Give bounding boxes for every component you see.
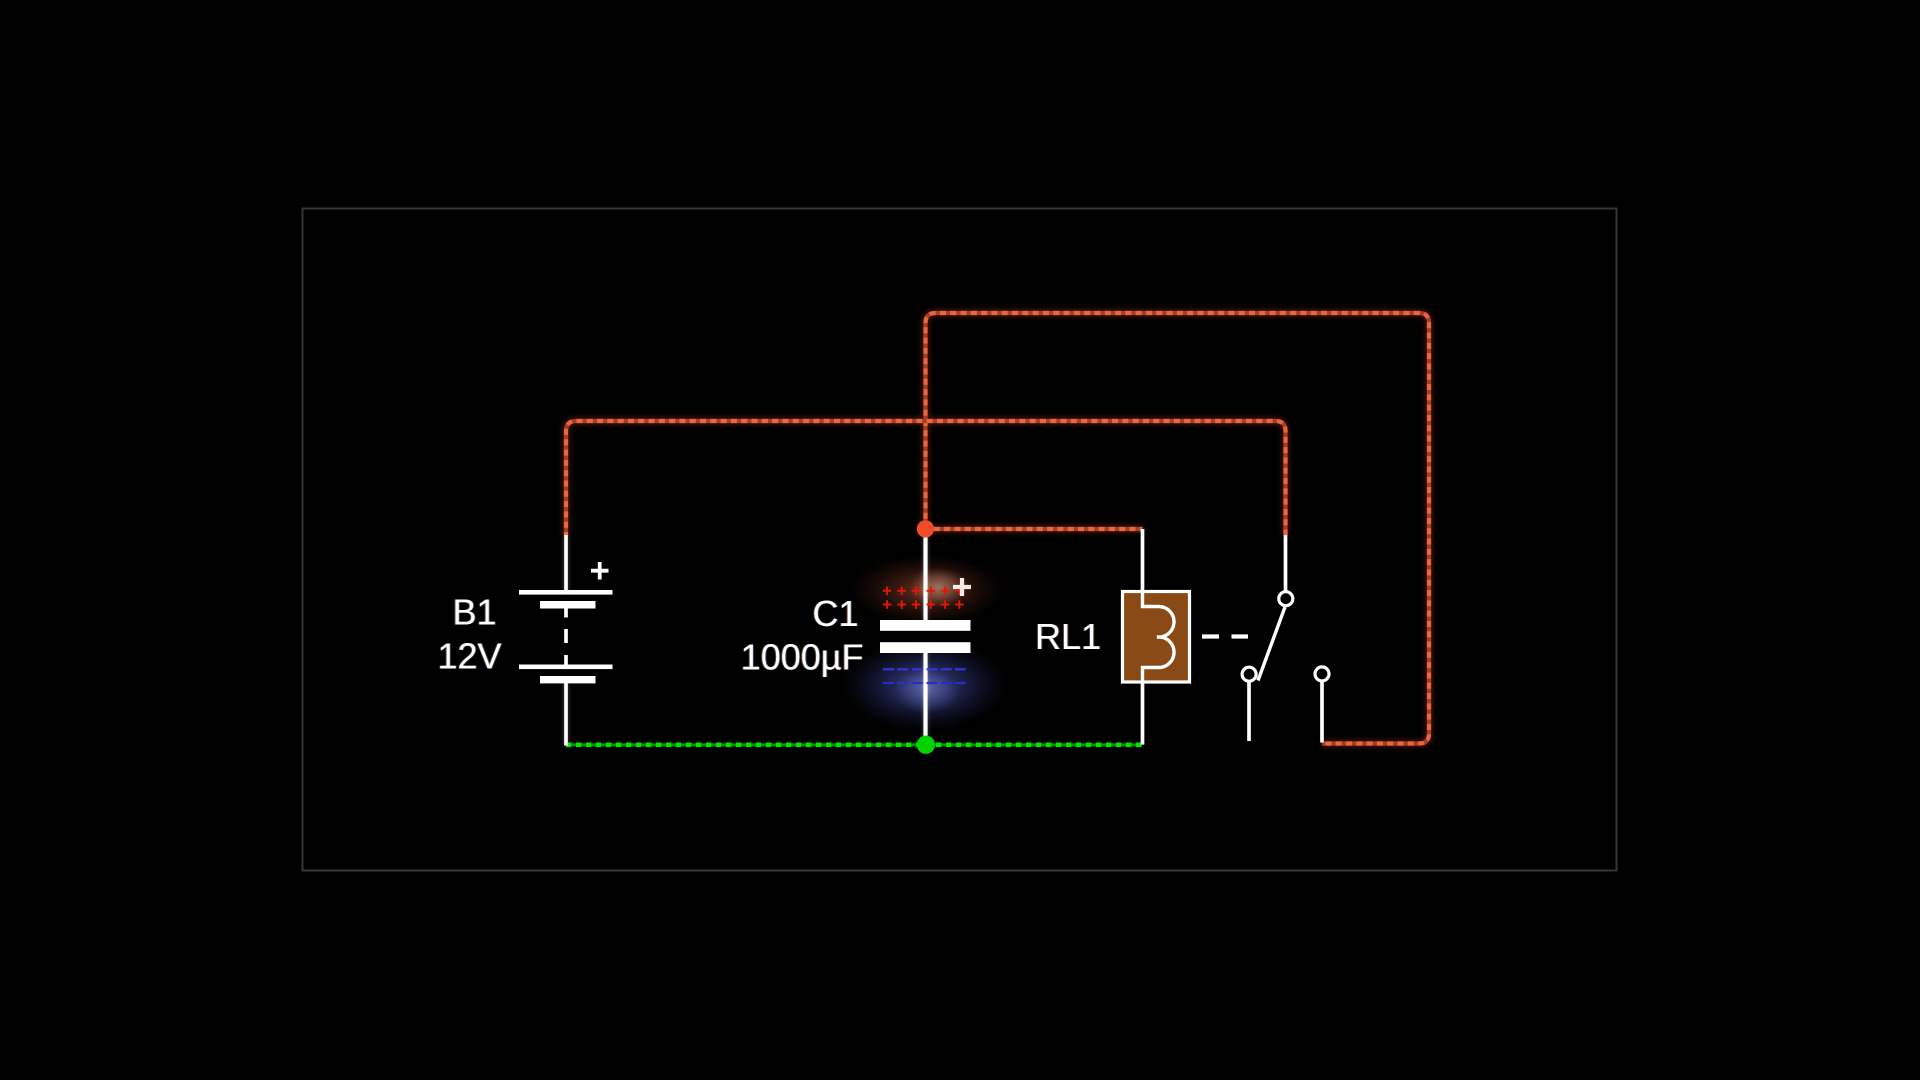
- lead: capacitor bottom: [923, 652, 927, 745]
- label 1000uF: [740, 637, 865, 678]
- battery B1 plate cell2 long: [519, 665, 613, 670]
- lead: capacitor top: [923, 529, 927, 621]
- battery polarity plus: [591, 562, 609, 580]
- svg-text:12V: 12V: [437, 636, 501, 677]
- lead: switch NC contact dangling: [1247, 682, 1251, 741]
- battery B1 plate cell2 short thick: [540, 676, 596, 683]
- label B1: [451, 592, 497, 633]
- lead: battery + post: [564, 535, 568, 592]
- switch pole contact circle: [1279, 592, 1293, 606]
- capacitor C1 negative charge glow: [841, 638, 1009, 732]
- capacitor C1 positive charge glow: [849, 554, 1005, 626]
- lead: battery - post: [564, 683, 568, 746]
- switch blade: [1258, 607, 1285, 681]
- label RL1: [1034, 616, 1102, 657]
- ground wire (bright current dashes): [566, 742, 1142, 747]
- svg-text:1000µF: 1000µF: [741, 637, 864, 678]
- capacitor big polarity plus: [953, 578, 971, 596]
- wire: node A to top-right loop to switch NO contact (base): [926, 313, 1430, 744]
- wire: battery + to switch pole (dashes): [566, 421, 1286, 535]
- capacitor positive charge marks: [883, 587, 964, 609]
- ground wire: battery - to relay bottom (base): [566, 743, 1142, 746]
- relay mechanical link dashes: [1202, 634, 1248, 638]
- battery B1 plate cell1 long: [519, 590, 613, 595]
- label 12V: [436, 636, 502, 677]
- node A (positive junction): [917, 520, 934, 537]
- battery B1 plate cell1 short thick: [540, 601, 596, 609]
- wire: node A to relay coil top (base): [926, 527, 1143, 531]
- wire: node A loop (bright current dashes): [926, 313, 1430, 744]
- capacitor C1 top plate: [880, 620, 971, 631]
- relay RL1 coil winding: [1143, 591, 1175, 682]
- battery internal dashed link: [564, 609, 568, 665]
- svg-text:RL1: RL1: [1035, 616, 1101, 657]
- wire: node A to relay coil top (dashes): [926, 527, 1143, 531]
- lead: switch pole top: [1284, 535, 1288, 591]
- svg-text:C1: C1: [812, 593, 858, 634]
- node B (ground junction): [917, 736, 935, 754]
- white component leads glow: [566, 529, 926, 746]
- wire: battery + to switch pole (base): [566, 421, 1286, 535]
- ground wire green (glow layer): [566, 742, 1142, 748]
- relay RL1 coil box: [1123, 592, 1190, 683]
- svg-text:B1: B1: [452, 592, 496, 633]
- capacitor C1 bottom plate: [880, 642, 971, 653]
- switch NO contact circle: [1315, 667, 1329, 681]
- wire net V+ loop (glow layer): [566, 313, 1429, 744]
- switch NC contact circle: [1242, 667, 1256, 681]
- lead: switch NO contact down: [1320, 682, 1324, 743]
- lead: relay coil top: [1141, 529, 1145, 591]
- label C1: [811, 593, 859, 634]
- capacitor negative charge dashes: [883, 668, 966, 670]
- lead: relay coil bottom: [1141, 682, 1145, 745]
